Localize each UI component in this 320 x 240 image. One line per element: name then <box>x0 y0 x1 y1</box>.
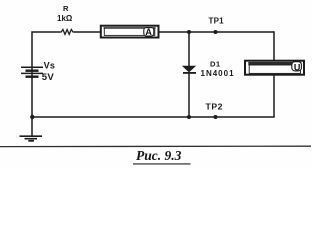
battery Vs <box>21 67 43 78</box>
svg-text:1kΩ: 1kΩ <box>57 14 73 23</box>
wire: right vertical lower <box>273 76 275 118</box>
wire: ammeter to top-right corner <box>160 31 275 33</box>
wire: top rail left + left rail upper <box>32 32 60 67</box>
caption Рис. 9.3 <box>133 148 191 164</box>
wire: ground stub <box>31 117 33 136</box>
svg-text:Vs: Vs <box>44 61 56 71</box>
ground <box>20 136 43 141</box>
resistor R <box>60 30 74 35</box>
wire: bottom rail <box>32 116 275 118</box>
svg-text:U: U <box>294 62 301 72</box>
svg-text:Рис. 9.3: Рис. 9.3 <box>136 148 182 163</box>
node: diode top junction <box>187 30 191 34</box>
wire: diode branch lower <box>188 74 190 118</box>
node: diode bottom junction <box>187 115 191 119</box>
wire: diode branch upper <box>188 32 190 66</box>
svg-text:TP1: TP1 <box>209 17 225 26</box>
svg-text:R: R <box>63 4 69 13</box>
node: battery-ground junction <box>30 115 34 119</box>
svg-text:5V: 5V <box>42 72 55 83</box>
voltmeter U <box>245 61 304 75</box>
svg-text:A: A <box>145 27 152 37</box>
node TP1 <box>214 30 218 34</box>
svg-text:D1: D1 <box>210 59 221 68</box>
wire: left rail lower <box>31 78 33 118</box>
svg-text:TP2: TP2 <box>206 102 224 112</box>
node TP2 <box>214 115 218 119</box>
wire: resistor to ammeter <box>74 31 100 33</box>
svg-text:1N4001: 1N4001 <box>201 69 235 78</box>
diode D1 <box>183 66 196 73</box>
wire: right vertical upper <box>273 31 275 60</box>
ammeter A <box>101 26 159 38</box>
